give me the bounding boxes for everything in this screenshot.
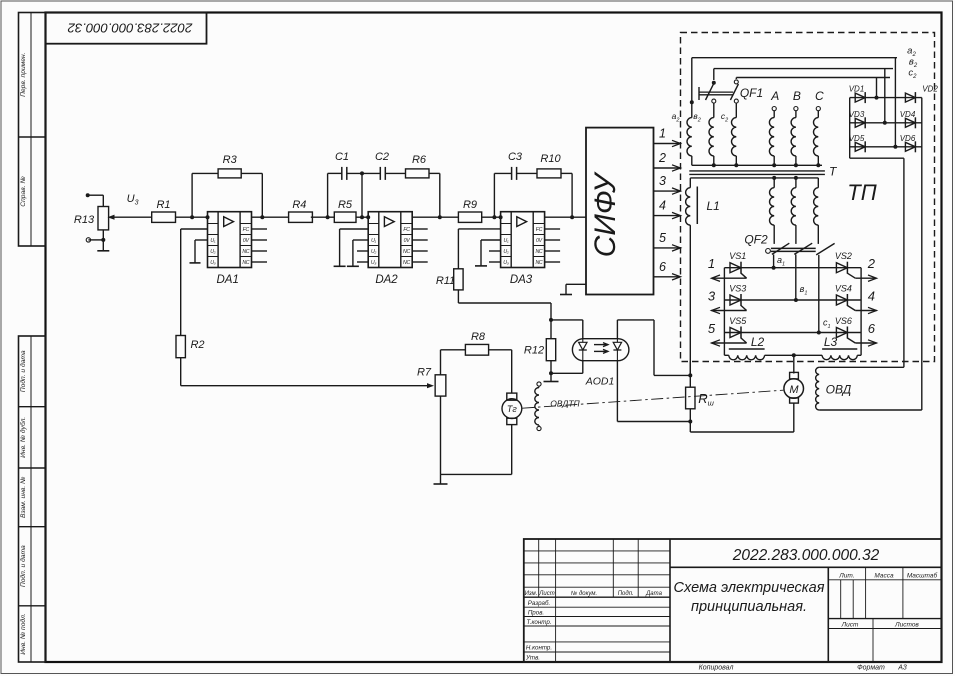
svg-text:C: C bbox=[815, 89, 824, 103]
svg-text:R6: R6 bbox=[412, 154, 427, 166]
svg-text:6: 6 bbox=[659, 260, 666, 274]
gate arrow 2 bbox=[855, 277, 876, 279]
DA1 ground bbox=[195, 239, 208, 241]
wire phase a2 bbox=[692, 57, 897, 59]
svg-text:6: 6 bbox=[868, 321, 876, 336]
svg-text:3: 3 bbox=[659, 174, 666, 188]
svg-text:VD3: VD3 bbox=[849, 110, 865, 119]
wire R2 to R7 wiper bbox=[180, 358, 182, 386]
svg-text:Лит.: Лит. bbox=[838, 572, 854, 579]
svg-text:Масштаб: Масштаб bbox=[907, 571, 938, 579]
svg-text:3: 3 bbox=[708, 289, 716, 304]
wire a1 to thyristor bridge bbox=[773, 255, 775, 268]
circuit breaker QF2 bbox=[766, 249, 771, 254]
transformer primary winding с2 bbox=[735, 103, 737, 118]
svg-text:VS4: VS4 bbox=[835, 284, 852, 294]
wire c1 to thyristor bridge bbox=[818, 255, 820, 333]
svg-text:FC: FC bbox=[403, 227, 410, 233]
SIFU output 5 bbox=[654, 247, 681, 249]
thyristor VS2 bbox=[836, 263, 847, 273]
photodiode leads bbox=[616, 320, 618, 339]
secondary star rail bbox=[690, 177, 818, 179]
svg-text:L3: L3 bbox=[824, 335, 838, 349]
optocoupler AOD1 bbox=[572, 339, 629, 361]
VD row wire bbox=[850, 146, 922, 148]
feedback resistor R3 bbox=[191, 173, 193, 217]
thyristor bridge left rail bbox=[723, 268, 725, 356]
svg-text:R3: R3 bbox=[223, 154, 238, 166]
svg-text:R13: R13 bbox=[74, 214, 95, 226]
bridge bottom rail with reactors bbox=[724, 354, 728, 356]
svg-text:Лист: Лист bbox=[841, 621, 859, 628]
svg-text:Справ. №: Справ. № bbox=[20, 176, 27, 206]
node between C1 and C2 bbox=[347, 172, 381, 174]
DA3 ground bbox=[481, 239, 501, 241]
transformer primary winding B bbox=[794, 107, 798, 111]
thyristor VS4 bbox=[836, 295, 847, 305]
node a1 on row1 bbox=[772, 266, 776, 270]
LED leads bbox=[582, 320, 584, 339]
op-amp DA2 bbox=[368, 212, 428, 268]
svg-text:NC: NC bbox=[403, 249, 410, 255]
svg-text:Разраб.: Разраб. bbox=[528, 600, 550, 607]
thyristor VS1 bbox=[730, 263, 741, 273]
svg-text:U₂: U₂ bbox=[503, 249, 508, 255]
svg-text:0V: 0V bbox=[536, 238, 543, 244]
svg-text:Инв. № подл.: Инв. № подл. bbox=[19, 613, 27, 655]
svg-text:R10: R10 bbox=[540, 153, 561, 165]
resistor R8 bbox=[465, 344, 488, 355]
reactor L3 bbox=[822, 355, 857, 359]
svg-text:DA2: DA2 bbox=[375, 274, 398, 286]
op-amp DA3 bbox=[501, 212, 560, 268]
svg-text:Изм.: Изм. bbox=[525, 591, 538, 597]
svg-text:СИФУ: СИФУ bbox=[589, 171, 622, 257]
potentiometer R7 bbox=[435, 375, 446, 396]
transformer primary winding a2 bbox=[691, 102, 693, 117]
svg-text:Подп.: Подп. bbox=[618, 591, 634, 597]
svg-text:ОВДТП: ОВДТП bbox=[550, 399, 580, 409]
transformer primary winding A bbox=[772, 107, 776, 111]
QF1 tie bar bbox=[698, 87, 700, 100]
diode VD5 bbox=[855, 142, 865, 151]
svg-text:VS5: VS5 bbox=[729, 316, 747, 326]
resistor R2 bbox=[176, 336, 185, 358]
svg-text:R2: R2 bbox=[190, 339, 204, 351]
resistor R1 bbox=[152, 212, 176, 222]
DA2 ground (pin 2) bbox=[340, 228, 369, 230]
svg-text:FC: FC bbox=[536, 227, 543, 233]
SIFU output 4 bbox=[654, 215, 681, 217]
thyristor bridge right rail bbox=[860, 268, 862, 356]
svg-text:NC: NC bbox=[535, 249, 542, 255]
svg-text:4: 4 bbox=[659, 199, 666, 213]
svg-text:Перв. примен.: Перв. примен. bbox=[20, 52, 27, 97]
diode VD3 bbox=[855, 118, 865, 127]
QF1 blade pole 2 bbox=[706, 83, 715, 100]
svg-text:NC: NC bbox=[242, 249, 249, 255]
svg-text:VD6: VD6 bbox=[900, 134, 916, 143]
DA3 supply stubs bbox=[489, 250, 501, 252]
svg-text:QF1: QF1 bbox=[740, 86, 763, 100]
svg-text:VS3: VS3 bbox=[729, 284, 746, 294]
wire b2 drop to VD row2 bbox=[884, 69, 886, 123]
gate arrow 1 bbox=[712, 277, 747, 279]
resistor R11 bbox=[454, 269, 463, 290]
resistor R6 bbox=[385, 172, 405, 174]
svg-text:R5: R5 bbox=[338, 199, 353, 211]
svg-text:U₃: U₃ bbox=[503, 260, 508, 266]
wire c2 drop to VD row1 bbox=[876, 78, 878, 98]
left margin cells upper group bbox=[19, 13, 46, 247]
wire R5 to DA2 input bbox=[356, 216, 368, 218]
wire motor to bottom rail bbox=[793, 403, 795, 432]
R13 wiper arrow bbox=[112, 216, 114, 218]
svg-text:R8: R8 bbox=[471, 331, 486, 343]
svg-text:A: A bbox=[770, 89, 779, 103]
capacitor C1 bbox=[327, 173, 329, 217]
tachogenerator Tg bbox=[507, 393, 517, 400]
wire phase c2 bbox=[736, 77, 890, 79]
node: DA1 feedback tap bbox=[190, 215, 194, 219]
capacitor C2 bbox=[379, 167, 381, 180]
wire DA2 output to R9 bbox=[412, 216, 458, 218]
svg-text:Тг: Тг bbox=[507, 404, 517, 414]
svg-text:Масса: Масса bbox=[874, 572, 894, 579]
svg-text:NC: NC bbox=[403, 260, 410, 266]
svg-text:AOD1: AOD1 bbox=[585, 376, 615, 388]
thyristor VS5 bbox=[730, 328, 741, 338]
wire L1 down to shunt node bbox=[689, 225, 691, 375]
R7 ground bbox=[440, 474, 442, 484]
wire R10 down to main line bbox=[561, 172, 572, 174]
svg-text:A3: A3 bbox=[897, 665, 907, 672]
svg-text:C2: C2 bbox=[375, 151, 389, 163]
svg-text:NC: NC bbox=[242, 260, 249, 266]
svg-text:М: М bbox=[789, 384, 799, 396]
svg-text:2022.283.000.000.32: 2022.283.000.000.32 bbox=[732, 547, 880, 564]
svg-text:VS6: VS6 bbox=[835, 316, 852, 326]
node: DA1 input bbox=[206, 215, 210, 219]
node c1 on row3 bbox=[817, 331, 821, 335]
SIFU output 2 bbox=[654, 167, 681, 169]
svg-text:5: 5 bbox=[659, 231, 666, 245]
wire R1 to DA1 input bbox=[176, 216, 208, 218]
wire DA1 pin to R2 bbox=[181, 228, 208, 230]
wire R4 to R5 bbox=[311, 216, 335, 218]
svg-text:ОВД: ОВД bbox=[826, 383, 852, 397]
svg-text:R12: R12 bbox=[524, 345, 544, 357]
svg-text:U₂: U₂ bbox=[371, 249, 376, 255]
svg-text:0V: 0V bbox=[243, 238, 250, 244]
svg-text:Подп. и дата: Подп. и дата bbox=[19, 350, 27, 392]
wire R9 to DA3 input bbox=[482, 216, 501, 218]
transformer T core double line bbox=[689, 170, 825, 172]
shunt resistor Rsh bbox=[689, 362, 691, 388]
svg-text:VS2: VS2 bbox=[835, 251, 852, 261]
motor M bbox=[790, 372, 799, 379]
svg-text:0V: 0V bbox=[404, 238, 411, 244]
SIFU output 6 bbox=[654, 276, 681, 278]
capacitor C3 bbox=[493, 173, 495, 217]
svg-text:R4: R4 bbox=[292, 199, 306, 211]
SIFU ground bbox=[566, 283, 586, 285]
diode VD4 bbox=[905, 118, 915, 127]
mechanical coupling dash-dot bbox=[523, 390, 784, 408]
transformer secondary winding bbox=[817, 178, 819, 188]
VD row wire bbox=[850, 122, 922, 124]
VD bridge left rail bbox=[849, 98, 851, 159]
svg-text:принципиальная.: принципиальная. bbox=[691, 599, 807, 615]
svg-text:Н.контр.: Н.контр. bbox=[526, 645, 552, 652]
svg-text:Утв.: Утв. bbox=[525, 655, 540, 662]
bridge row wire bbox=[724, 267, 861, 269]
svg-text:Схема электрическая: Схема электрическая bbox=[674, 580, 825, 596]
title block bbox=[524, 539, 942, 662]
svg-text:№ докум.: № докум. bbox=[571, 590, 597, 597]
svg-text:QF2: QF2 bbox=[744, 233, 768, 247]
wire a2 drop to VD row3 bbox=[894, 58, 896, 147]
thyristor VS6 bbox=[836, 328, 847, 338]
wire phase b2 bbox=[714, 68, 893, 70]
svg-text:C1: C1 bbox=[335, 151, 349, 163]
svg-text:VD5: VD5 bbox=[849, 134, 865, 143]
SIFU output 1 bbox=[654, 143, 681, 145]
SIFU control block bbox=[586, 128, 654, 295]
R12 ground bbox=[550, 373, 552, 381]
wire R8 to tacho bbox=[489, 349, 512, 351]
svg-text:Т.контр.: Т.контр. bbox=[527, 619, 552, 626]
wire R6 down to DA2 output bbox=[429, 172, 440, 174]
bridge row wire bbox=[724, 332, 861, 334]
svg-text:R11: R11 bbox=[436, 275, 455, 287]
svg-text:U₃: U₃ bbox=[371, 260, 376, 266]
reactor L2 bbox=[729, 355, 765, 359]
circuit breaker QF1 bbox=[690, 100, 694, 104]
diode VD1 bbox=[855, 93, 865, 102]
svg-text:R7: R7 bbox=[417, 367, 432, 379]
wire b1 to thyristor bridge bbox=[795, 255, 797, 301]
VD row wire bbox=[850, 97, 922, 99]
transformer secondary winding bbox=[795, 178, 797, 188]
svg-text:U₁: U₁ bbox=[371, 238, 376, 244]
svg-text:U₂: U₂ bbox=[210, 249, 215, 255]
svg-text:ТП: ТП bbox=[847, 180, 876, 205]
potentiometer R13 bbox=[98, 207, 109, 230]
gate arrow 6 bbox=[855, 342, 876, 344]
transformer primary winding в2 bbox=[713, 103, 715, 118]
bridge row wire bbox=[724, 299, 861, 301]
svg-text:U₁: U₁ bbox=[210, 238, 215, 244]
svg-text:1: 1 bbox=[708, 256, 715, 271]
svg-text:1: 1 bbox=[659, 127, 666, 141]
svg-text:Пров.: Пров. bbox=[528, 609, 544, 616]
top designation box 2022.283.000.000.32 (rotated 180) bbox=[46, 13, 207, 44]
op-amp DA1 bbox=[208, 212, 268, 268]
svg-text:L2: L2 bbox=[751, 335, 765, 349]
svg-text:VD2: VD2 bbox=[922, 85, 938, 94]
wire R7 top to R8 bbox=[440, 350, 442, 375]
svg-text:VD1: VD1 bbox=[849, 85, 865, 94]
thyristor VS3 bbox=[730, 295, 741, 305]
ground below R13 bbox=[102, 240, 104, 251]
svg-text:Формат: Формат bbox=[857, 665, 885, 672]
SIFU output 3 bbox=[654, 190, 681, 192]
svg-text:DA3: DA3 bbox=[510, 274, 533, 286]
svg-text:Копировал: Копировал bbox=[699, 665, 734, 672]
wire DA3 pin to R11 bbox=[458, 228, 500, 230]
svg-text:VS1: VS1 bbox=[729, 251, 746, 261]
svg-text:U₃: U₃ bbox=[210, 260, 215, 266]
resistor R4 bbox=[289, 212, 313, 222]
transformer primary winding C bbox=[816, 107, 820, 111]
dashed box TP converter bbox=[681, 33, 935, 362]
svg-text:4: 4 bbox=[868, 289, 875, 304]
svg-text:2: 2 bbox=[867, 256, 876, 271]
AOD1 coupling arrows bbox=[594, 344, 608, 346]
VD bridge negative output to OVD bbox=[850, 157, 904, 159]
svg-text:5: 5 bbox=[708, 321, 716, 336]
wire DA1 output to R4 bbox=[260, 215, 264, 219]
VD bridge right rail bbox=[921, 98, 923, 410]
svg-text:Подп. и дата: Подп. и дата bbox=[19, 545, 27, 587]
QF1 blade pole 3 bbox=[730, 84, 738, 100]
resistor R12 bbox=[550, 320, 552, 339]
svg-text:Инв. № дубл.: Инв. № дубл. bbox=[19, 417, 27, 458]
wire bridge output to motor bbox=[792, 353, 796, 357]
secondary rail junctions bbox=[772, 176, 776, 180]
left margin cells lower group bbox=[19, 336, 46, 662]
svg-text:Лист: Лист bbox=[538, 591, 554, 597]
gate arrow 5 bbox=[712, 342, 747, 344]
resistor R9 bbox=[458, 212, 481, 222]
svg-text:B: B bbox=[793, 89, 801, 103]
DA2 ground (supply pins) bbox=[353, 239, 368, 241]
resistor R5 bbox=[334, 212, 356, 222]
gate arrow 3 bbox=[712, 310, 747, 312]
svg-text:U₁: U₁ bbox=[504, 238, 509, 244]
transformer secondary winding bbox=[773, 178, 775, 188]
svg-text:R9: R9 bbox=[463, 199, 477, 211]
svg-text:L1: L1 bbox=[707, 199, 720, 213]
svg-text:NC: NC bbox=[535, 260, 542, 266]
svg-text:Листов: Листов bbox=[894, 621, 919, 628]
svg-text:2: 2 bbox=[658, 151, 666, 165]
svg-text:VD4: VD4 bbox=[900, 110, 916, 119]
gate arrow 4 bbox=[855, 310, 876, 312]
resistor R10 bbox=[517, 172, 537, 174]
primary rail junctions bbox=[712, 163, 716, 167]
field winding OVDTP bbox=[537, 382, 541, 386]
diode VD2 bbox=[905, 93, 915, 102]
primary star rail bbox=[692, 164, 822, 166]
wire DA3 output to SIFU bbox=[545, 216, 586, 218]
svg-text:R1: R1 bbox=[156, 199, 170, 211]
svg-text:2022.283.000.000.32: 2022.283.000.000.32 bbox=[67, 21, 193, 36]
wire R11 to AOD1 node bbox=[457, 290, 459, 303]
field winding OVD bbox=[819, 366, 904, 368]
svg-text:Дата: Дата bbox=[645, 591, 662, 597]
smoothing reactor L1 bbox=[689, 178, 691, 188]
svg-text:C3: C3 bbox=[508, 151, 523, 163]
node b1 on row2 bbox=[794, 298, 798, 302]
svg-text:Взам. инв. №: Взам. инв. № bbox=[20, 477, 27, 518]
svg-text:FC: FC bbox=[243, 227, 250, 233]
wire R13 wiper to R1 bbox=[112, 216, 152, 218]
diode VD6 bbox=[905, 142, 915, 151]
svg-text:DA1: DA1 bbox=[217, 274, 239, 286]
wire R7 bottom loop bbox=[440, 396, 442, 474]
